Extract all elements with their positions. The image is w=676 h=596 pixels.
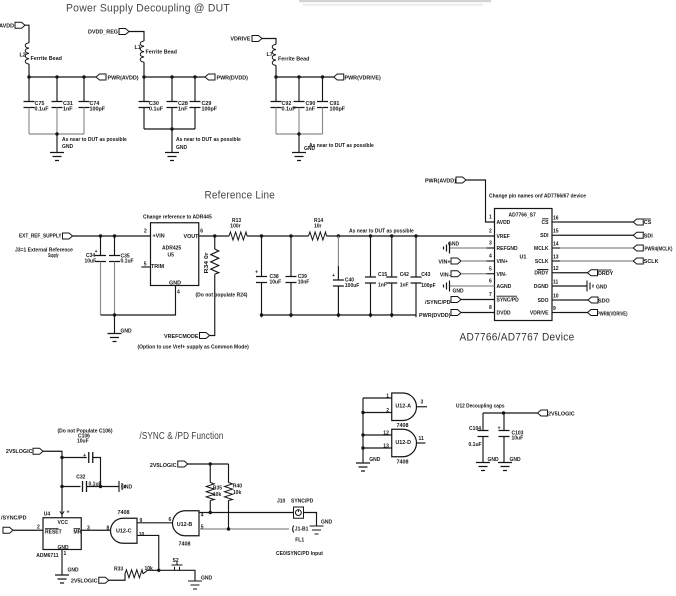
- svg-text:As near to DUT as possible: As near to DUT as possible: [62, 137, 127, 143]
- svg-text:Supply: Supply: [48, 253, 59, 259]
- svg-text:10r: 10r: [314, 223, 322, 229]
- svg-text:1nF: 1nF: [306, 107, 316, 113]
- svg-text:1nF: 1nF: [63, 107, 73, 113]
- svg-text:ADR425: ADR425: [162, 246, 181, 252]
- svg-text:ADM6711: ADM6711: [36, 553, 58, 559]
- svg-text:REFGND: REFGND: [497, 246, 519, 252]
- svg-text:11: 11: [419, 436, 425, 442]
- svg-text:MR: MR: [74, 530, 82, 536]
- svg-text:10uF: 10uF: [270, 279, 282, 285]
- svg-text:1nF: 1nF: [400, 283, 409, 289]
- svg-text:U5: U5: [168, 253, 175, 259]
- svg-text:GND: GND: [121, 485, 133, 491]
- svg-text:TRIM: TRIM: [151, 264, 165, 270]
- svg-text:10uF: 10uF: [77, 438, 89, 444]
- svg-text:U12-D: U12-D: [395, 440, 411, 446]
- svg-text:AD7766_S7: AD7766_S7: [509, 213, 536, 219]
- svg-text:100r: 100r: [230, 223, 240, 229]
- svg-text:10k: 10k: [145, 566, 154, 572]
- svg-text:100pF: 100pF: [330, 107, 346, 113]
- svg-text:AD7766/AD7767 Device: AD7766/AD7767 Device: [460, 332, 575, 344]
- svg-text:GND: GND: [448, 242, 460, 248]
- svg-text:SCLK: SCLK: [644, 259, 659, 265]
- svg-text:L7: L7: [267, 52, 273, 58]
- svg-text:5: 5: [201, 525, 204, 531]
- svg-text:3: 3: [489, 241, 492, 247]
- svg-text:U12-A: U12-A: [395, 404, 411, 410]
- svg-text:VDRIVE: VDRIVE: [230, 36, 250, 42]
- svg-text:10nF: 10nF: [298, 279, 310, 285]
- svg-text:DVDD_REG: DVDD_REG: [88, 29, 118, 35]
- svg-text:GND: GND: [488, 457, 500, 463]
- svg-text:9: 9: [553, 306, 556, 312]
- svg-text:L1: L1: [135, 45, 141, 51]
- svg-text:DRDY: DRDY: [534, 271, 549, 277]
- svg-text:DVDD: DVDD: [497, 311, 512, 317]
- svg-text:J1-B1: J1-B1: [295, 527, 309, 533]
- svg-text:5: 5: [489, 266, 492, 272]
- svg-text:VREF: VREF: [497, 234, 510, 240]
- svg-text:GND: GND: [596, 285, 608, 291]
- svg-text:2V5LOGIC: 2V5LOGIC: [150, 463, 177, 469]
- svg-text:R40: R40: [233, 483, 242, 489]
- svg-text:VDRIVE: VDRIVE: [530, 310, 549, 316]
- svg-text:SDI: SDI: [540, 233, 549, 239]
- svg-text:10k: 10k: [233, 490, 242, 496]
- svg-text:11: 11: [553, 279, 559, 285]
- svg-text:U4: U4: [44, 511, 51, 517]
- svg-text:16: 16: [553, 215, 559, 221]
- svg-text:Power Supply Decoupling @ DUT: Power Supply Decoupling @ DUT: [66, 3, 230, 15]
- svg-text:U12 Decoupling caps: U12 Decoupling caps: [456, 403, 505, 409]
- svg-text:4: 4: [489, 254, 492, 260]
- svg-text:3: 3: [421, 400, 424, 406]
- svg-text:1nF: 1nF: [178, 107, 188, 113]
- svg-text:(Do not populate R24): (Do not populate R24): [196, 292, 248, 298]
- svg-text:10: 10: [139, 532, 145, 538]
- svg-text:Change reference to ADR445: Change reference to ADR445: [143, 215, 212, 221]
- svg-text:C104: C104: [469, 426, 481, 432]
- svg-text:7408: 7408: [118, 510, 130, 516]
- svg-text:RESET: RESET: [45, 530, 62, 536]
- svg-text:CS: CS: [644, 220, 652, 226]
- svg-text:10k: 10k: [213, 492, 222, 498]
- svg-text:AVDD: AVDD: [0, 23, 14, 29]
- svg-text:VCC: VCC: [58, 520, 69, 526]
- svg-text:SYNC/PD: SYNC/PD: [291, 499, 314, 505]
- svg-text:100pF: 100pF: [90, 107, 106, 113]
- svg-text:GND: GND: [169, 280, 181, 286]
- svg-text:FL1: FL1: [295, 538, 304, 544]
- svg-text:GND: GND: [453, 288, 465, 294]
- svg-text:12: 12: [553, 266, 559, 272]
- svg-text:U12-B: U12-B: [177, 522, 193, 528]
- svg-text:SDO: SDO: [598, 299, 610, 305]
- svg-text:0.1uF: 0.1uF: [121, 259, 134, 265]
- svg-text:10uF: 10uF: [512, 435, 524, 441]
- svg-text:2V5LOGIC: 2V5LOGIC: [6, 449, 33, 455]
- svg-text:Ferrite Bead: Ferrite Bead: [278, 57, 309, 63]
- svg-text:+: +: [83, 453, 86, 459]
- svg-text:GND: GND: [201, 575, 213, 581]
- svg-text:C42: C42: [400, 272, 409, 278]
- svg-text:+: +: [255, 270, 258, 276]
- svg-text:C32: C32: [76, 475, 85, 481]
- svg-text:1: 1: [489, 215, 492, 221]
- svg-text:/SYNC/PD: /SYNC/PD: [1, 515, 27, 521]
- svg-text:4: 4: [177, 290, 180, 296]
- svg-text:6: 6: [200, 229, 203, 235]
- svg-text:GND: GND: [176, 145, 188, 151]
- svg-text:GND: GND: [321, 520, 333, 526]
- svg-text:U12-C: U12-C: [116, 529, 132, 535]
- svg-text:L2: L2: [20, 53, 26, 59]
- svg-text:EXT_REF_SUPPLY: EXT_REF_SUPPLY: [19, 233, 62, 239]
- svg-text:1: 1: [64, 551, 67, 557]
- svg-text:PWR(DVDD): PWR(DVDD): [217, 75, 249, 81]
- svg-text:Reference Line: Reference Line: [205, 190, 276, 202]
- svg-text:PWR(AVDD): PWR(AVDD): [108, 75, 139, 81]
- svg-text:GND: GND: [369, 457, 381, 463]
- svg-text:MCLK: MCLK: [534, 246, 549, 252]
- svg-text:R34 0r: R34 0r: [204, 252, 210, 273]
- svg-text:4: 4: [201, 512, 204, 518]
- svg-text:0.1uF: 0.1uF: [35, 107, 50, 113]
- svg-text:7408: 7408: [397, 423, 409, 429]
- svg-text:PWR4(MCLK): PWR4(MCLK): [645, 246, 673, 252]
- svg-text:AVDD: AVDD: [497, 220, 511, 226]
- svg-text:VREFCMODE: VREFCMODE: [164, 334, 199, 340]
- svg-text:VIN+: VIN+: [497, 259, 508, 265]
- svg-text:J3=1 External Reference: J3=1 External Reference: [15, 247, 73, 253]
- svg-text:J10: J10: [277, 498, 286, 504]
- svg-text:8: 8: [489, 305, 492, 311]
- svg-text:6: 6: [169, 517, 172, 523]
- svg-text:0.1uF: 0.1uF: [469, 442, 482, 448]
- svg-text:(Option to use Vref+ supply as: (Option to use Vref+ supply as Common Mo…: [138, 345, 250, 351]
- svg-text:/SYNC & /PD Function: /SYNC & /PD Function: [140, 431, 224, 442]
- svg-text:As near to DUT as possible: As near to DUT as possible: [309, 143, 374, 149]
- svg-text:1nF: 1nF: [378, 283, 387, 289]
- svg-text:GND: GND: [68, 568, 80, 574]
- svg-text:VOUT: VOUT: [184, 234, 200, 240]
- svg-text:PWR(VDRIVE): PWR(VDRIVE): [345, 75, 381, 81]
- svg-text:10uF: 10uF: [85, 258, 97, 264]
- svg-text:100pF: 100pF: [202, 107, 218, 113]
- svg-text:+: +: [67, 510, 70, 516]
- svg-text:GND: GND: [510, 457, 522, 463]
- svg-text:C15: C15: [378, 272, 387, 278]
- svg-text:CS: CS: [542, 220, 550, 226]
- svg-text:S2: S2: [173, 558, 179, 564]
- svg-text:7: 7: [489, 292, 492, 298]
- svg-text:2: 2: [144, 228, 147, 234]
- svg-text:2: 2: [386, 408, 389, 414]
- svg-text:GND: GND: [121, 328, 133, 334]
- svg-text:R35: R35: [213, 485, 222, 491]
- svg-text:9: 9: [140, 518, 143, 524]
- svg-text:As near to DUT as possible: As near to DUT as possible: [349, 228, 414, 234]
- svg-text:6: 6: [489, 279, 492, 285]
- svg-text:DGND: DGND: [534, 284, 549, 290]
- svg-text:Ferrite Bead: Ferrite Bead: [31, 56, 62, 62]
- svg-text:Ferrite Bead: Ferrite Bead: [146, 50, 177, 56]
- svg-text:AGND: AGND: [497, 284, 512, 290]
- svg-text:CE0/SYNC/PD Input: CE0/SYNC/PD Input: [276, 551, 323, 557]
- svg-text:0.1uF: 0.1uF: [89, 481, 102, 487]
- svg-text:100pF: 100pF: [421, 283, 435, 289]
- svg-text:2: 2: [37, 525, 40, 531]
- svg-text:/SYNC/PD: /SYNC/PD: [425, 300, 451, 306]
- svg-text:10: 10: [553, 293, 559, 299]
- svg-text:8: 8: [107, 526, 110, 532]
- svg-text:DRDY: DRDY: [598, 271, 614, 277]
- svg-text:15: 15: [553, 229, 559, 235]
- svg-text:2V5LOGIC: 2V5LOGIC: [71, 579, 98, 585]
- svg-text:+VIN: +VIN: [153, 234, 165, 240]
- svg-text:SDI: SDI: [644, 234, 653, 240]
- svg-text:1: 1: [386, 393, 389, 399]
- svg-text:VIN-: VIN-: [497, 272, 507, 278]
- svg-text:R33: R33: [114, 566, 123, 572]
- svg-text:VIN-: VIN-: [440, 272, 451, 278]
- svg-text:SYNC/PD: SYNC/PD: [497, 298, 520, 304]
- svg-text:7408: 7408: [397, 459, 409, 465]
- svg-text:PWR(DVDD): PWR(DVDD): [419, 313, 451, 319]
- svg-text:U1: U1: [520, 254, 527, 260]
- svg-text:14: 14: [553, 241, 559, 247]
- svg-text:PWR8(VDRIVE): PWR8(VDRIVE): [597, 311, 628, 317]
- svg-text:+: +: [498, 425, 501, 431]
- svg-text:3: 3: [87, 526, 90, 532]
- svg-text:100uF: 100uF: [345, 283, 359, 289]
- svg-text:SCLK: SCLK: [535, 259, 549, 265]
- svg-text:Change pin names onf AD7766/67: Change pin names onf AD7766/67 device: [489, 193, 586, 199]
- svg-text:13: 13: [383, 443, 389, 449]
- svg-text:As near to DUT as possible: As near to DUT as possible: [176, 137, 241, 143]
- svg-text:PWR(AVDD): PWR(AVDD): [425, 178, 456, 184]
- svg-text:2: 2: [489, 228, 492, 234]
- svg-text:GND: GND: [304, 146, 316, 152]
- svg-text:+: +: [332, 273, 335, 279]
- svg-text:SDO: SDO: [538, 298, 549, 304]
- svg-text:12: 12: [383, 430, 389, 436]
- svg-text:C43: C43: [421, 272, 430, 278]
- svg-text:GND: GND: [62, 144, 74, 150]
- svg-text:7408: 7408: [179, 541, 191, 547]
- svg-text:0.1uF: 0.1uF: [149, 107, 164, 113]
- svg-text:2V5LOGIC: 2V5LOGIC: [548, 411, 575, 417]
- svg-text:VIN+: VIN+: [438, 259, 450, 265]
- svg-text:13: 13: [553, 254, 559, 260]
